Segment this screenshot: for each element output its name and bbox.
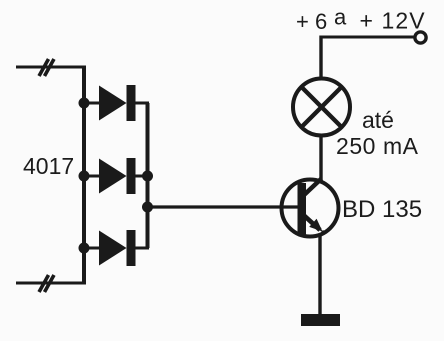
lamp L1	[293, 79, 350, 136]
diode D1	[84, 85, 149, 121]
svg-text:4017: 4017	[23, 153, 74, 179]
svg-text:a: a	[334, 5, 347, 30]
wire: lamp to supply rail	[319, 36, 322, 79]
node: junction dot on right bus at D2	[142, 171, 153, 182]
node: junction dot diode D1 anode	[79, 98, 90, 109]
break mark on top-left wire	[39, 59, 54, 76]
svg-text:+ 6: + 6	[296, 9, 327, 34]
wire: bottom-left input stub	[16, 282, 84, 285]
node: junction dot diode D3 anode	[79, 243, 90, 254]
wire: right vertical bus (diode cathodes common)	[146, 103, 150, 248]
diode D3	[84, 230, 149, 266]
wire: collector up to lamp	[319, 137, 322, 181]
svg-text:até: até	[362, 107, 394, 133]
wire: supply rail horizontal	[320, 36, 415, 39]
diode D2	[84, 158, 149, 194]
ground	[301, 314, 340, 326]
node: junction dot output to base	[142, 202, 153, 213]
break mark on bottom-left wire	[39, 275, 54, 292]
wire: top-left input stub	[16, 66, 84, 69]
wire: base wire to transistor	[148, 205, 300, 208]
terminal: +V supply	[415, 32, 426, 43]
wire: left vertical bus	[82, 66, 86, 285]
svg-text:250 mA: 250 mA	[336, 133, 419, 159]
transistor Q1 BD 135	[282, 179, 339, 237]
wire: emitter down to ground	[318, 236, 321, 315]
svg-text:BD 135: BD 135	[342, 196, 422, 223]
node: junction dot diode D2 anode	[79, 171, 90, 182]
svg-text:+ 12V: + 12V	[360, 8, 426, 34]
